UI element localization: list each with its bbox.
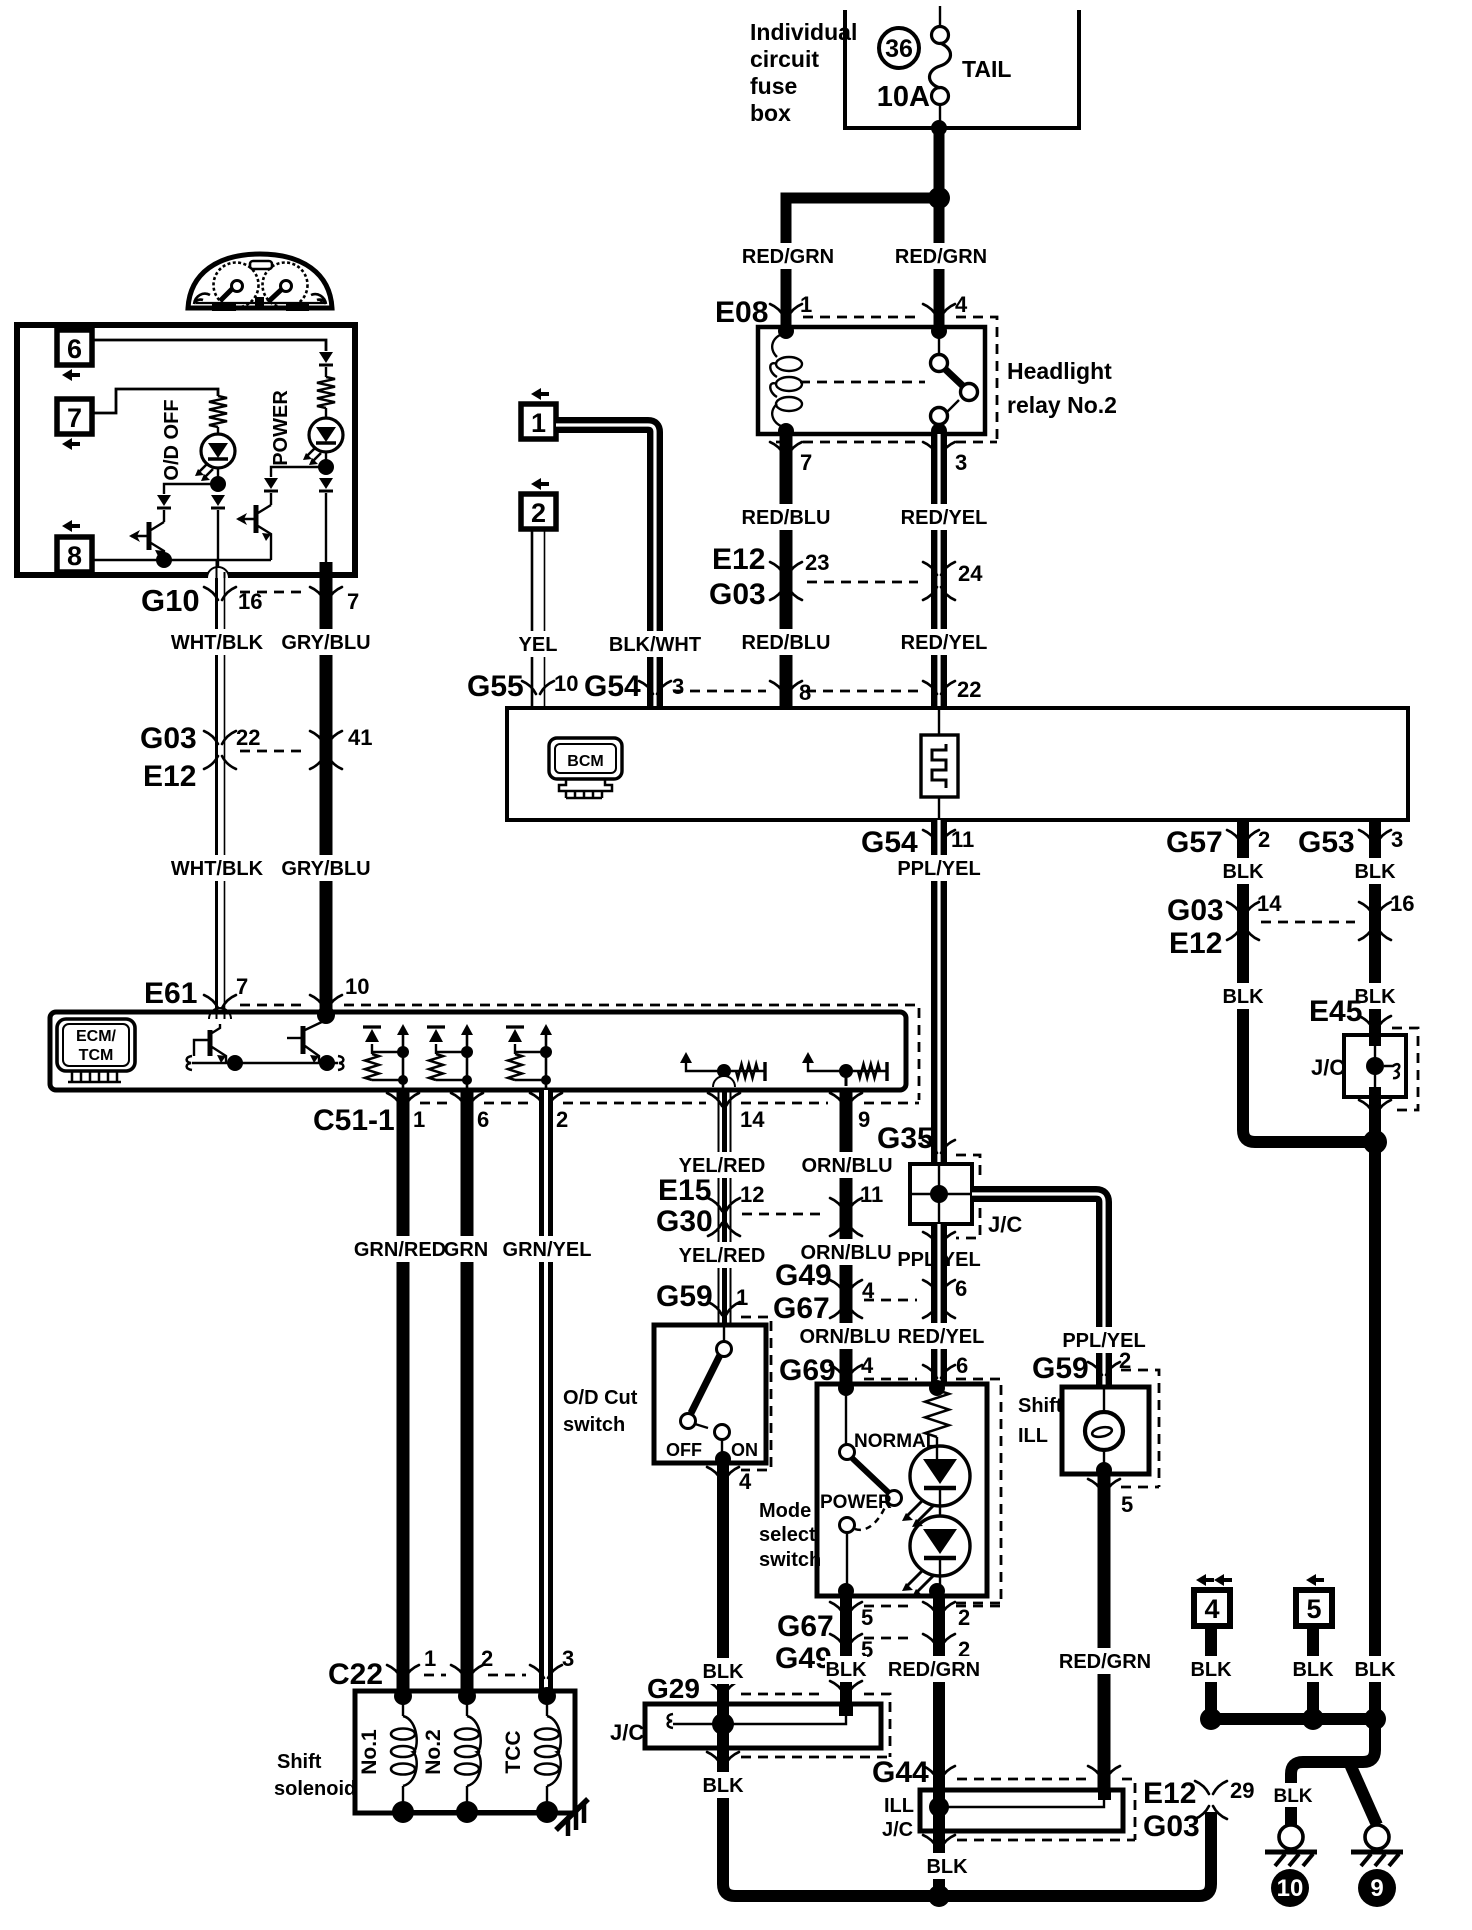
G69 dashed outline: [956, 1379, 1001, 1603]
junction at fuse box edge: [931, 120, 947, 136]
BLK labels row: [1190, 1656, 1232, 1682]
svg-text:ON: ON: [731, 1440, 758, 1460]
svg-text:6: 6: [955, 1276, 967, 1301]
wire GRN/YEL: [539, 1090, 553, 1695]
svg-text:10: 10: [1277, 1875, 1304, 1902]
connector below E45: [1359, 1100, 1391, 1113]
ECM/TCM icon: [57, 1019, 135, 1071]
svg-text:14: 14: [740, 1107, 765, 1132]
svg-text:ORN/BLU: ORN/BLU: [799, 1326, 890, 1348]
wire BLK below G44: [933, 1831, 945, 1896]
wire YEL from connector 2 to BCM: [531, 529, 534, 708]
connector G59 pin 2: [1088, 1362, 1120, 1375]
solenoid coil No.1: [394, 1687, 412, 1705]
connector G10 pin 16: [204, 587, 236, 600]
solenoid bottom bus: [403, 1810, 547, 1814]
E61 dashed outline around ECM: [344, 1005, 919, 1100]
svg-text:BCM: BCM: [567, 753, 603, 770]
svg-text:Headlight: Headlight: [1007, 358, 1112, 384]
arrow above connector 5: [1306, 1574, 1324, 1586]
wire label RED/GRN: [889, 1656, 979, 1682]
connector C22 pin 1: [387, 1665, 419, 1678]
connector C51-1 pin 14: [708, 1093, 740, 1106]
svg-text:23: 23: [805, 550, 829, 575]
svg-text:10: 10: [554, 671, 578, 696]
wire RED/GRN shift ILL to G44: [1098, 1474, 1111, 1790]
G59 shift ILL dashed outline: [1121, 1370, 1159, 1487]
svg-text:E08: E08: [715, 296, 768, 329]
svg-text:1: 1: [800, 292, 812, 317]
svg-text:3: 3: [955, 450, 967, 475]
wire label YEL: [517, 631, 559, 657]
ECM transistor Q3: [217, 1008, 225, 1019]
junction dot rail left: [227, 1055, 243, 1071]
arrow above connector 1: [531, 388, 549, 400]
connector G69 pin 4: [830, 1365, 862, 1378]
branch to transistor 2: [271, 467, 326, 477]
svg-text:1: 1: [424, 1646, 436, 1671]
svg-text:1: 1: [531, 408, 546, 438]
svg-text:RED/YEL: RED/YEL: [898, 1326, 985, 1348]
svg-text:BLK: BLK: [1222, 986, 1264, 1008]
svg-text:Individual: Individual: [750, 19, 857, 45]
svg-text:No.1: No.1: [358, 1729, 381, 1775]
svg-text:fuse: fuse: [750, 73, 797, 99]
arrows above connector 4: [1196, 1574, 1214, 1586]
svg-text:YEL: YEL: [519, 634, 558, 656]
svg-text:G03: G03: [1143, 1810, 1200, 1843]
wire RED/GRN mode switch to G44: [933, 1596, 945, 1831]
svg-text:2: 2: [531, 498, 546, 528]
LED1 light arrows: [907, 1500, 933, 1522]
svg-text:4: 4: [1204, 1594, 1219, 1624]
wire RED/YEL relay to BCM: [931, 434, 947, 708]
svg-text:RED/GRN: RED/GRN: [888, 1659, 980, 1681]
G44 dashed outline: [957, 1779, 1135, 1840]
svg-text:2: 2: [958, 1605, 970, 1630]
svg-text:G55: G55: [467, 670, 524, 703]
diode below POWER junction: [319, 478, 333, 489]
svg-text:WHT/BLK: WHT/BLK: [171, 858, 264, 880]
svg-text:4: 4: [861, 1353, 874, 1378]
connector E12/G03 pin 24: [923, 562, 955, 600]
svg-text:5: 5: [1306, 1594, 1321, 1624]
svg-text:41: 41: [348, 725, 372, 750]
svg-text:G59: G59: [656, 1280, 713, 1313]
connector E08 pin 7: [770, 442, 802, 455]
connector G49/G67 pin 6: [923, 1280, 955, 1318]
wire from pin 8 emitter rail: [92, 559, 271, 561]
wire YEL/RED ECM to O/D cut switch: [719, 1090, 731, 1325]
POWER indicator LED: [309, 418, 343, 452]
connector E45: [1359, 1016, 1391, 1029]
svg-text:3: 3: [1391, 827, 1403, 852]
connector box 4: [1194, 1590, 1230, 1626]
connector G54 pin 22: [923, 681, 955, 694]
svg-text:G59: G59: [1032, 1352, 1089, 1385]
svg-text:2: 2: [481, 1646, 493, 1671]
wire BLK connector 5: [1307, 1626, 1319, 1725]
junction node: [928, 187, 950, 209]
junction dot O/D OFF branch: [210, 476, 226, 492]
connector G29 in 2: [830, 1681, 862, 1694]
fuse number circle 36: [879, 28, 919, 68]
ground number 9: [1358, 1869, 1396, 1907]
svg-text:J/C: J/C: [988, 1212, 1022, 1237]
svg-text:RED/YEL: RED/YEL: [901, 632, 988, 654]
svg-text:6: 6: [67, 334, 82, 364]
connector G44 in 2: [1088, 1766, 1120, 1779]
svg-text:ECM/: ECM/: [76, 1028, 117, 1045]
svg-text:RED/YEL: RED/YEL: [901, 507, 988, 529]
ECM driver group output 403: [397, 1024, 409, 1035]
GRY/BLU start blob: [320, 562, 333, 576]
svg-text:11: 11: [860, 1182, 883, 1207]
svg-text:G67: G67: [777, 1610, 834, 1643]
G29 junction block: [645, 1704, 881, 1748]
E08 connector dashed outline: [803, 316, 922, 319]
svg-text:BLK: BLK: [702, 1775, 744, 1797]
opening where YEL/RED exits ECM: [713, 1076, 735, 1087]
svg-text:8: 8: [799, 680, 811, 705]
PPL/YEL label above shift ILL: [1059, 1327, 1149, 1353]
O/D cut switch box: [654, 1325, 766, 1463]
ECM transistor Q4: [317, 1006, 335, 1024]
svg-text:BLK: BLK: [1222, 861, 1264, 883]
svg-text:7: 7: [236, 974, 248, 999]
Individual circuit fuse box outline: [845, 10, 1079, 128]
connector G59 pin 4: [707, 1467, 739, 1480]
svg-text:BLK: BLK: [1273, 1786, 1312, 1807]
svg-text:G44: G44: [872, 1756, 929, 1789]
svg-text:36: 36: [885, 35, 913, 63]
connector E08 pin 1: [770, 304, 802, 317]
wire label RED/GRN right: [896, 243, 986, 269]
connector E08 pin 4: [923, 304, 955, 317]
svg-text:G49: G49: [775, 1642, 832, 1675]
wire GRY/BLU cluster to ECM: [320, 575, 333, 1015]
instrument cluster icon: [188, 254, 332, 308]
svg-text:switch: switch: [759, 1549, 821, 1571]
wire BLK G57: [1243, 820, 1375, 1142]
svg-text:2: 2: [556, 1107, 568, 1132]
ground bus: [1211, 1713, 1375, 1725]
svg-text:E12: E12: [1169, 927, 1222, 960]
connector G49/G67 pin 4: [830, 1280, 862, 1318]
E45 dashed outline: [1392, 1028, 1418, 1110]
svg-text:G03: G03: [709, 578, 766, 611]
svg-text:ORN/BLU: ORN/BLU: [801, 1155, 892, 1177]
diode below O/D OFF junction: [211, 495, 225, 506]
junction dot E45/G57: [1363, 1130, 1387, 1154]
connector G49 pin 2: [923, 1634, 955, 1647]
relay switch: [931, 323, 947, 339]
svg-text:OFF: OFF: [666, 1440, 702, 1460]
connector G10 pin 7: [310, 587, 342, 600]
connector E61 pin 7: [204, 995, 236, 1008]
connector below G29: [707, 1752, 739, 1765]
wire from G35 to shift ILL: [972, 1194, 1104, 1388]
svg-text:G29: G29: [647, 1673, 700, 1704]
svg-text:J/C: J/C: [882, 1819, 913, 1841]
svg-text:29: 29: [1230, 1778, 1254, 1803]
svg-text:Shift: Shift: [277, 1751, 322, 1773]
connector C51-1 pin 9: [830, 1093, 862, 1106]
connector C22 pin 3: [530, 1665, 562, 1678]
svg-text:8: 8: [67, 541, 82, 571]
connector box 6: [57, 330, 92, 365]
resistor in O/D OFF branch: [209, 396, 227, 427]
arrow below connector 6: [62, 369, 80, 381]
svg-text:G57: G57: [1166, 826, 1223, 859]
svg-text:ILL: ILL: [1018, 1425, 1048, 1447]
svg-text:BLK: BLK: [1354, 861, 1396, 883]
svg-text:E45: E45: [1309, 995, 1362, 1028]
svg-text:G67: G67: [773, 1292, 830, 1325]
ECM internal emitter rail: [192, 1062, 338, 1065]
svg-text:TAIL: TAIL: [962, 56, 1011, 82]
connector E12/G03 pin 29: [1195, 1781, 1227, 1819]
wire from pin 6 to POWER branch: [92, 340, 326, 351]
headlight relay No.2 box: [758, 327, 985, 434]
svg-text:6: 6: [477, 1107, 489, 1132]
branch to transistor 1: [164, 484, 218, 494]
svg-text:5: 5: [1121, 1492, 1133, 1517]
arrow below connector 7: [62, 438, 80, 450]
BLK label below G29: [702, 1772, 744, 1798]
diagonal wire to ground 9: [1349, 1762, 1377, 1825]
connector C51-1 pin 1: [387, 1093, 419, 1106]
ECM driver group output 546: [540, 1024, 552, 1035]
wire BLK G53: [1369, 820, 1381, 1035]
wire BLK O/D switch to G29: [717, 1463, 729, 1724]
connector G03/E12 pin 41: [310, 731, 342, 769]
resistor in POWER branch: [317, 377, 335, 408]
svg-text:BLK: BLK: [1190, 1659, 1232, 1681]
diode in POWER branch: [319, 352, 333, 363]
svg-text:12: 12: [740, 1182, 764, 1207]
svg-text:G53: G53: [1298, 826, 1355, 859]
svg-text:ILL: ILL: [884, 1795, 914, 1817]
svg-text:1: 1: [413, 1107, 425, 1132]
transistor Q1: [147, 522, 152, 550]
ECM/TCM box: [50, 1012, 906, 1090]
svg-text:No.2: No.2: [422, 1729, 445, 1775]
solenoid coil TCC: [538, 1687, 556, 1705]
wire GRN/RED: [397, 1090, 410, 1695]
connector E12/G03 pin 23: [770, 562, 802, 600]
BLK label above G29: [702, 1658, 744, 1684]
svg-text:Mode: Mode: [759, 1500, 811, 1522]
svg-text:6: 6: [956, 1353, 968, 1378]
mode select switch box: [817, 1384, 987, 1596]
connector E08 pin 3: [923, 442, 955, 455]
svg-text:GRY/BLU: GRY/BLU: [281, 858, 370, 880]
svg-text:E15: E15: [658, 1174, 711, 1207]
svg-text:O/D Cut: O/D Cut: [563, 1387, 638, 1409]
arrow above connector 8: [62, 520, 80, 532]
svg-text:relay No.2: relay No.2: [1007, 392, 1117, 418]
svg-text:solenoid: solenoid: [274, 1778, 356, 1800]
mode switch LED 1: [910, 1446, 970, 1506]
svg-text:J/C: J/C: [610, 1720, 644, 1745]
junction dot POWER branch: [318, 459, 334, 475]
svg-text:GRY/BLU: GRY/BLU: [281, 632, 370, 654]
svg-text:4: 4: [955, 292, 968, 317]
svg-text:G03: G03: [140, 722, 197, 755]
connector box 8: [57, 537, 92, 572]
transistor Q2: [254, 505, 259, 533]
svg-text:22: 22: [957, 677, 981, 702]
svg-text:24: 24: [958, 561, 983, 586]
svg-text:7: 7: [347, 589, 359, 614]
wire label RED/GRN left: [743, 243, 833, 269]
svg-text:PPL/YEL: PPL/YEL: [897, 858, 980, 880]
junction dot bottom rail: [928, 1885, 950, 1907]
solenoid coil No.2: [458, 1687, 476, 1705]
arrow above connector 2: [531, 478, 549, 490]
svg-text:G54: G54: [861, 826, 918, 859]
svg-text:E12: E12: [712, 543, 765, 576]
svg-text:YEL/RED: YEL/RED: [679, 1245, 766, 1267]
connector G03/E12 pin 22: [204, 731, 236, 769]
wire label RED/GRN shift ILL: [1060, 1648, 1150, 1674]
ECM sense group output 846: [802, 1052, 814, 1063]
connector G54 pin 8: [770, 681, 802, 694]
wire ORN/BLU ECM to mode select switch: [840, 1090, 853, 1384]
svg-text:circuit: circuit: [750, 46, 819, 72]
svg-text:POWER: POWER: [820, 1492, 892, 1513]
ECM sense group output 724: [680, 1052, 692, 1063]
svg-text:BLK: BLK: [926, 1856, 968, 1878]
svg-text:RED/BLU: RED/BLU: [742, 632, 831, 654]
connector G55 pin 10: [522, 681, 554, 694]
wire BLK/WHT from connector 1 to BCM: [556, 425, 655, 708]
connector below G35: [923, 1232, 955, 1245]
connector G53 pin 3: [1359, 830, 1391, 843]
svg-text:5: 5: [861, 1605, 873, 1630]
svg-text:BLK: BLK: [825, 1659, 867, 1681]
shift ILL box: [1062, 1387, 1149, 1474]
mode switch resistor: [929, 1380, 945, 1396]
relay coil: [778, 323, 794, 339]
svg-text:16: 16: [1390, 891, 1414, 916]
svg-text:7: 7: [800, 450, 812, 475]
svg-text:RED/GRN: RED/GRN: [742, 246, 834, 268]
relay coil-switch dashed link: [800, 381, 925, 384]
connector G29 in: [707, 1681, 739, 1694]
svg-text:G03: G03: [1167, 894, 1224, 927]
connector E15/G30 pin 11: [830, 1198, 862, 1236]
svg-text:BLK: BLK: [1354, 1659, 1396, 1681]
svg-text:GRN/RED: GRN/RED: [354, 1239, 446, 1261]
svg-text:G35: G35: [877, 1122, 934, 1155]
BCM icon: [549, 738, 622, 779]
svg-text:7: 7: [67, 403, 82, 433]
connector G03/E12 pin 16: [1359, 902, 1391, 940]
G29 dashed outline: [741, 1694, 890, 1757]
wire BLK below G29: [723, 1724, 1211, 1896]
connector G03/E12 pin 14: [1227, 902, 1259, 940]
connector G54 pin 3: [639, 681, 671, 694]
connector below shift ILL pin 5: [1088, 1479, 1120, 1492]
svg-text:RED/BLU: RED/BLU: [742, 507, 831, 529]
wire WHT/BLK cluster to ECM: [215, 575, 218, 1012]
svg-text:4: 4: [739, 1469, 752, 1494]
svg-text:E12: E12: [143, 760, 196, 793]
connector box 2: [521, 494, 556, 529]
wire label BLK: [825, 1656, 867, 1682]
svg-text:RED/GRN: RED/GRN: [1059, 1651, 1151, 1673]
ground 9: [1365, 1825, 1389, 1849]
wire from pin 7 to O/D OFF branch: [92, 389, 218, 413]
BLK label below G44: [926, 1853, 968, 1879]
connector C22 pin 2: [451, 1665, 483, 1678]
BCM module box: [507, 708, 1408, 820]
svg-text:box: box: [750, 100, 791, 126]
G59 dashed outline: [741, 1317, 771, 1470]
svg-text:3: 3: [672, 674, 684, 699]
ground number 10: [1271, 1869, 1309, 1907]
svg-text:10: 10: [345, 974, 369, 999]
wire to grounds: [1291, 1719, 1375, 1783]
svg-text:WHT/BLK: WHT/BLK: [171, 632, 264, 654]
G35 junction block J/C: [910, 1164, 972, 1224]
svg-text:10A: 10A: [877, 81, 930, 113]
mode switch contacts: [838, 1380, 854, 1396]
shift ILL lamp: [1103, 1387, 1105, 1412]
connector C51-1 pin 2: [530, 1093, 562, 1106]
connector C51-1 pin 6: [451, 1093, 483, 1106]
svg-text:select: select: [759, 1524, 816, 1546]
O/D OFF indicator LED: [201, 434, 235, 468]
diode above transistor 2: [264, 478, 278, 489]
wire into fuse: [939, 6, 941, 27]
svg-text:1: 1: [736, 1285, 748, 1310]
wire label BLK/WHT: [610, 631, 700, 657]
connector box 5: [1296, 1590, 1332, 1626]
svg-text:BLK/WHT: BLK/WHT: [609, 634, 701, 656]
connector G67 pin 5: [830, 1602, 862, 1615]
ground 10: [1279, 1825, 1303, 1849]
svg-text:TCC: TCC: [502, 1730, 525, 1773]
svg-text:G49: G49: [775, 1259, 832, 1292]
connector box 1: [521, 404, 556, 439]
svg-text:POWER: POWER: [270, 390, 292, 466]
connector G49 pin 5: [830, 1634, 862, 1647]
svg-text:14: 14: [1257, 891, 1282, 916]
LED2 light arrows: [907, 1570, 933, 1592]
branch wire to relay coil: [786, 198, 939, 327]
connector G57 pin 2: [1227, 830, 1259, 843]
svg-text:G30: G30: [656, 1205, 713, 1238]
svg-text:BLK: BLK: [702, 1661, 744, 1683]
svg-text:11: 11: [951, 827, 974, 852]
ground at solenoid: [556, 1799, 588, 1830]
wire GRN: [461, 1090, 474, 1695]
svg-text:BLK: BLK: [1292, 1659, 1334, 1681]
svg-text:2: 2: [1258, 827, 1270, 852]
junction dot emitter rail: [156, 552, 172, 568]
G44 ILL J/C block: [920, 1790, 1123, 1831]
wire BLK E45 to ground bus: [1369, 1097, 1381, 1719]
E45 junction block J/C: [1344, 1035, 1406, 1097]
connector E15/G30 pin 12: [708, 1198, 740, 1236]
connector G44 in: [923, 1766, 955, 1779]
svg-text:E12: E12: [1143, 1777, 1196, 1810]
wire BLK mode switch to G29: [840, 1596, 852, 1715]
O/D switch contacts: [723, 1325, 725, 1341]
